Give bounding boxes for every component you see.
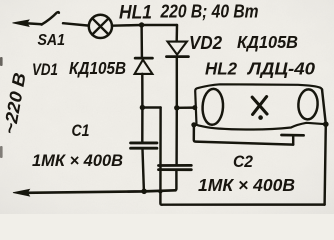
- lamp HL1 (circle with X): [89, 15, 112, 38]
- diode VD2 (triangle pointing down, cathode bar below): [168, 42, 187, 55]
- fluorescent lamp HL2 tube outline (top and left): [195, 84, 322, 124]
- scan artifact: left edge smudge lower: [0, 146, 3, 158]
- wire: top mains lead: [26, 23, 42, 24]
- lamp HL2 left pin dot: [192, 105, 197, 110]
- wire: VD2 to mid-right node: [176, 57, 178, 108]
- arrow: top-left mains arrowhead: [13, 20, 30, 27]
- lamp HL2 left electrode ellipse: [202, 88, 224, 125]
- wire: corner at top right, down to VD2: [175, 25, 178, 41]
- svg-text:ЛДЦ-40: ЛДЦ-40: [246, 59, 315, 79]
- node A junction dot: [139, 22, 144, 27]
- crossing blob where bypass crosses mains wire: [158, 189, 162, 193]
- wire: C1 bottom lead: [143, 150, 144, 192]
- wire: lamp HL1 to node A corner: [112, 24, 177, 27]
- wire: mid-left node to bypass corner: [142, 106, 160, 108]
- wire: C1 top lead: [141, 108, 144, 142]
- right electrode second-pin bar: [282, 134, 304, 137]
- svg-text:1МК × 400В: 1МК × 400В: [198, 175, 295, 195]
- scan artifact: left edge smudge upper: [0, 57, 3, 66]
- lamp HL2 gas-discharge X mark: [252, 97, 267, 115]
- lamp HL2 dot below X: [258, 115, 263, 120]
- junction dot: C1 on bottom mains wire: [141, 189, 147, 195]
- mid-right node junction dot: [174, 105, 179, 110]
- wire: VD1 to mid-left node: [141, 74, 144, 108]
- wire: bottom bypass loop to right side: [162, 203, 325, 206]
- svg-text:КД105В: КД105В: [69, 58, 126, 78]
- wire: bottom mains lead: [26, 190, 175, 193]
- wire: mid-right node to lamp left pin: [177, 106, 195, 109]
- capacitor C1: [131, 141, 157, 144]
- wire: C2 top lead: [175, 108, 178, 165]
- svg-text:С2: С2: [233, 152, 253, 171]
- svg-text:1МК × 400В: 1МК × 400В: [32, 151, 123, 170]
- svg-text:КД105В: КД105В: [237, 32, 298, 52]
- wire: bypass vertical down (crosses bottom mains wire): [160, 108, 162, 205]
- lamp HL2 right pin junction dot: [323, 121, 329, 127]
- svg-text:220 В; 40 Вт: 220 В; 40 Вт: [160, 1, 259, 22]
- wire: right side riser up to lamp right pin: [322, 89, 326, 204]
- svg-text:С1: С1: [72, 121, 90, 140]
- wire: tick up to right electrode second-pin bar: [292, 136, 294, 144]
- switch SA1: [42, 12, 59, 25]
- wire: switch to lamp HL1: [63, 23, 89, 25]
- svg-text:HL1: HL1: [119, 3, 152, 24]
- lamp HL2 bottom-left pin dot: [191, 122, 196, 127]
- svg-text:SA1: SA1: [38, 32, 66, 49]
- lamp HL2 right electrode ellipse: [298, 89, 319, 120]
- svg-text:HL2: HL2: [205, 59, 237, 79]
- wire: node A down to VD1: [140, 25, 143, 57]
- diode VD1 (cathode bar on top, triangle pointing up): [135, 57, 152, 60]
- fluorescent lamp HL2 tube outline (bottom): [197, 123, 326, 130]
- wire: C2 bottom lead to bottom mains wire: [175, 171, 177, 191]
- wire: bottom-left pin down and right (filament return wire): [194, 125, 293, 145]
- svg-text:VD1: VD1: [32, 61, 58, 79]
- capacitor C2: [159, 164, 192, 167]
- mid-left node junction dot: [140, 105, 145, 110]
- svg-text:VD2: VD2: [189, 33, 222, 53]
- arrow: bottom-left mains arrowhead: [13, 189, 30, 196]
